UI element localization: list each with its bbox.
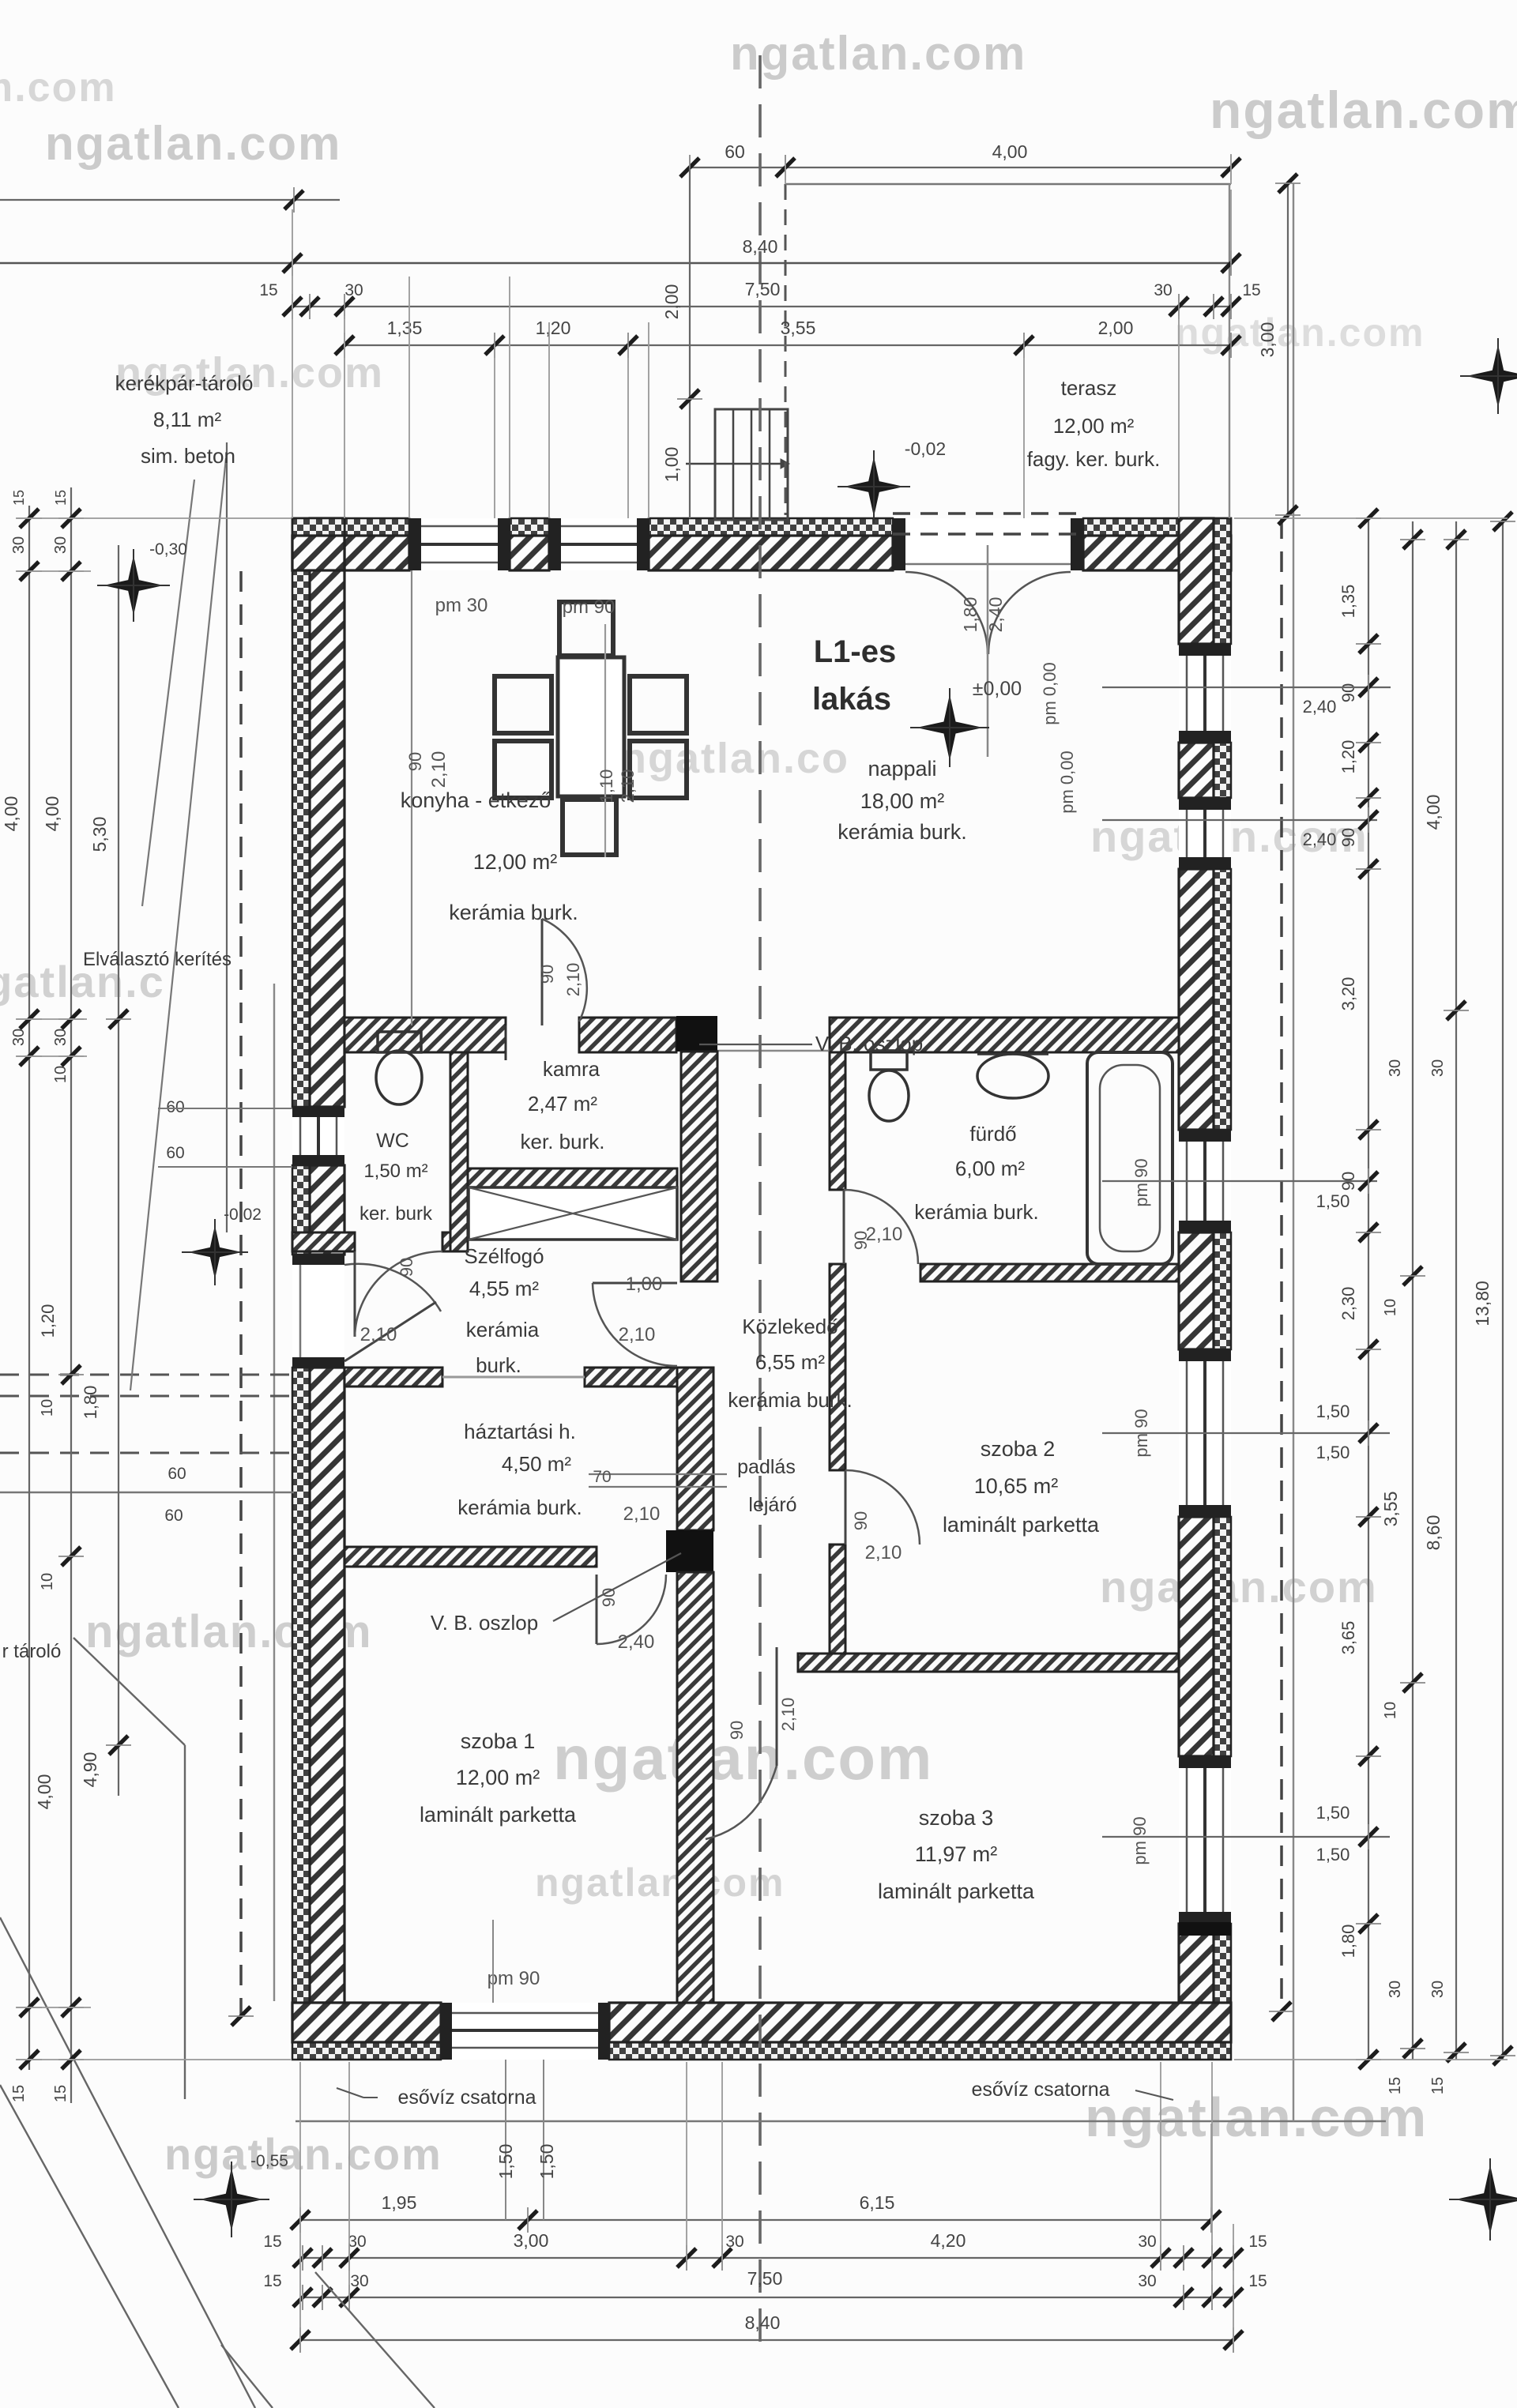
- svg-text:lakás: lakás: [812, 682, 891, 717]
- svg-text:30: 30: [52, 1029, 70, 1046]
- svg-text:2,10: 2,10: [428, 751, 450, 788]
- svg-text:kerámia burk.: kerámia burk.: [728, 1388, 853, 1412]
- svg-text:2,10: 2,10: [619, 1324, 656, 1345]
- svg-text:10: 10: [1382, 1702, 1399, 1719]
- svg-text:1,00: 1,00: [661, 447, 682, 483]
- svg-text:V. B. oszlop: V. B. oszlop: [431, 1611, 538, 1635]
- svg-text:12,00 m²: 12,00 m²: [456, 1766, 540, 1789]
- svg-text:±0,00: ±0,00: [973, 678, 1022, 700]
- svg-text:2,00: 2,00: [661, 284, 682, 320]
- svg-text:ngatlan.com: ngatlan.com: [164, 2129, 442, 2179]
- svg-text:15: 15: [10, 2085, 28, 2102]
- svg-text:esővíz csatorna: esővíz csatorna: [397, 2086, 536, 2109]
- svg-text:15: 15: [1387, 2077, 1404, 2094]
- svg-text:2,10: 2,10: [623, 1503, 661, 1525]
- svg-text:1,50 m²: 1,50 m²: [363, 1161, 427, 1182]
- svg-text:30: 30: [725, 2233, 743, 2251]
- svg-text:kerámia burk.: kerámia burk.: [838, 820, 967, 844]
- svg-text:90: 90: [599, 1588, 619, 1607]
- svg-text:pm 30: pm 30: [435, 595, 488, 616]
- svg-text:15: 15: [1248, 2233, 1267, 2251]
- svg-text:30: 30: [1154, 281, 1172, 299]
- svg-text:szoba 1: szoba 1: [461, 1729, 536, 1753]
- svg-text:15: 15: [1429, 2077, 1447, 2094]
- svg-text:4,00: 4,00: [992, 141, 1028, 162]
- svg-text:4,00: 4,00: [1, 796, 21, 832]
- svg-text:pm 0,00: pm 0,00: [1040, 662, 1060, 725]
- svg-text:1,50: 1,50: [1316, 1402, 1350, 1421]
- svg-text:10: 10: [1382, 1299, 1399, 1316]
- svg-text:konyha - étkező: konyha - étkező: [401, 788, 551, 812]
- svg-text:kerámia burk.: kerámia burk.: [449, 901, 578, 924]
- svg-text:Szélfogó: Szélfogó: [464, 1244, 544, 1268]
- svg-text:4,00: 4,00: [42, 796, 62, 832]
- svg-text:háztartási h.: háztartási h.: [464, 1420, 576, 1443]
- svg-text:padlás: padlás: [737, 1456, 796, 1478]
- svg-text:1,35: 1,35: [1338, 585, 1358, 619]
- svg-text:Elválasztó kerítés: Elválasztó kerítés: [83, 949, 232, 970]
- svg-text:30: 30: [350, 2272, 368, 2290]
- svg-text:3,55: 3,55: [1380, 1492, 1401, 1527]
- svg-text:90: 90: [537, 965, 557, 984]
- svg-text:4,55 m²: 4,55 m²: [469, 1277, 539, 1300]
- svg-text:10: 10: [39, 1399, 56, 1417]
- svg-text:5,30: 5,30: [89, 817, 110, 852]
- svg-text:11,97 m²: 11,97 m²: [915, 1842, 998, 1866]
- svg-text:30: 30: [10, 536, 28, 554]
- svg-text:30: 30: [10, 1029, 28, 1046]
- svg-text:4,90: 4,90: [80, 1752, 100, 1788]
- svg-text:10,65 m²: 10,65 m²: [974, 1474, 1059, 1498]
- svg-text:1,20: 1,20: [1338, 740, 1358, 774]
- svg-text:1,80: 1,80: [960, 597, 981, 633]
- svg-text:pm 90: pm 90: [1130, 1816, 1150, 1864]
- svg-text:2,10: 2,10: [360, 1324, 397, 1345]
- svg-text:15: 15: [52, 2085, 70, 2102]
- svg-text:L1-es: L1-es: [814, 634, 897, 669]
- svg-text:13,80: 13,80: [1472, 1281, 1493, 1326]
- svg-text:12,00 m²: 12,00 m²: [473, 850, 558, 874]
- svg-text:60: 60: [725, 141, 745, 162]
- svg-text:ngatlan.com: ngatlan.com: [1085, 2086, 1428, 2148]
- svg-text:-0,02: -0,02: [224, 1206, 262, 1224]
- svg-text:30: 30: [1387, 1981, 1404, 1998]
- svg-text:kerámia burk.: kerámia burk.: [457, 1496, 582, 1519]
- svg-text:1,50: 1,50: [495, 2144, 516, 2180]
- svg-text:30: 30: [52, 536, 70, 554]
- svg-text:2,47 m²: 2,47 m²: [528, 1092, 597, 1116]
- svg-text:15: 15: [263, 2272, 281, 2290]
- svg-text:2,00: 2,00: [1098, 318, 1134, 338]
- svg-text:4,00: 4,00: [34, 1774, 55, 1810]
- svg-text:90: 90: [397, 1258, 416, 1277]
- svg-text:60: 60: [168, 1465, 186, 1483]
- svg-text:1,00: 1,00: [626, 1274, 663, 1295]
- svg-text:ngatlan.com: ngatlan.com: [45, 117, 341, 170]
- svg-text:pm 90: pm 90: [563, 596, 615, 618]
- svg-text:1,35: 1,35: [387, 318, 423, 338]
- svg-text:10: 10: [52, 1066, 70, 1083]
- svg-text:fagy. ker. burk.: fagy. ker. burk.: [1027, 447, 1161, 471]
- svg-text:6,15: 6,15: [860, 2192, 895, 2213]
- svg-text:szoba 3: szoba 3: [919, 1806, 994, 1830]
- svg-text:60: 60: [166, 1144, 184, 1162]
- svg-text:15: 15: [1248, 2272, 1267, 2290]
- svg-text:ngatlan.com: ngatlan.com: [730, 27, 1026, 80]
- svg-text:6,55 m²: 6,55 m²: [755, 1350, 825, 1374]
- svg-text:8,40: 8,40: [743, 236, 778, 257]
- svg-text:4,50 m²: 4,50 m²: [502, 1452, 571, 1476]
- svg-text:2,40: 2,40: [1303, 697, 1337, 717]
- svg-text:3,55: 3,55: [781, 318, 816, 338]
- svg-text:V. B. oszlop: V. B. oszlop: [815, 1032, 923, 1055]
- svg-text:1,50: 1,50: [1316, 1443, 1350, 1462]
- svg-text:60: 60: [166, 1098, 184, 1116]
- svg-text:1,80: 1,80: [81, 1386, 100, 1420]
- svg-text:2,40: 2,40: [985, 597, 1006, 633]
- svg-text:3,00: 3,00: [1257, 322, 1278, 358]
- svg-text:2,40: 2,40: [618, 1631, 655, 1653]
- svg-text:2,30: 2,30: [1338, 1287, 1358, 1321]
- svg-text:pm 90: pm 90: [1131, 1158, 1151, 1206]
- svg-text:1,50: 1,50: [536, 2144, 557, 2180]
- svg-text:r tároló: r tároló: [2, 1641, 62, 1662]
- svg-text:3,00: 3,00: [514, 2230, 549, 2251]
- svg-text:7,50: 7,50: [745, 279, 781, 299]
- svg-text:30: 30: [1429, 1059, 1447, 1077]
- svg-text:30: 30: [1138, 2233, 1156, 2251]
- svg-text:burk.: burk.: [476, 1353, 521, 1377]
- svg-text:15: 15: [263, 2233, 281, 2251]
- svg-text:terasz: terasz: [1061, 376, 1117, 400]
- svg-text:15: 15: [11, 490, 27, 506]
- svg-text:8,60: 8,60: [1423, 1515, 1444, 1551]
- svg-text:1,50: 1,50: [1316, 1803, 1350, 1823]
- svg-text:2,10: 2,10: [866, 1224, 903, 1245]
- svg-text:ngatlan.com: ngatlan.com: [1175, 310, 1425, 355]
- svg-text:ngatlan.com: ngatlan.com: [535, 1861, 785, 1905]
- svg-text:2,10: 2,10: [618, 769, 638, 803]
- svg-text:szoba 2: szoba 2: [981, 1437, 1056, 1461]
- svg-text:WC: WC: [376, 1130, 409, 1152]
- svg-text:lejáró: lejáró: [748, 1494, 796, 1516]
- svg-text:4,20: 4,20: [931, 2230, 966, 2251]
- svg-text:pm 90: pm 90: [1131, 1409, 1151, 1457]
- svg-text:ngatlan.com: ngatlan.com: [1210, 81, 1517, 139]
- svg-text:15: 15: [259, 281, 277, 299]
- svg-text:90: 90: [727, 1721, 747, 1740]
- svg-text:kamra: kamra: [543, 1057, 600, 1081]
- svg-text:90: 90: [405, 752, 425, 771]
- svg-text:90: 90: [1338, 828, 1358, 847]
- svg-text:fürdő: fürdő: [969, 1122, 1016, 1146]
- svg-text:kerámia: kerámia: [466, 1318, 540, 1341]
- svg-text:laminált parketta: laminált parketta: [420, 1803, 577, 1827]
- svg-text:1,20: 1,20: [536, 318, 571, 338]
- svg-text:3,20: 3,20: [1338, 977, 1358, 1011]
- svg-text:1,20: 1,20: [38, 1304, 58, 1338]
- svg-text:1,80: 1,80: [1338, 1925, 1358, 1958]
- svg-text:2,10: 2,10: [778, 1698, 798, 1732]
- svg-text:pm 0,00: pm 0,00: [1057, 751, 1077, 814]
- svg-text:pm 90: pm 90: [487, 1968, 540, 1989]
- svg-text:1,50: 1,50: [1316, 1191, 1350, 1211]
- svg-text:kerámia burk.: kerámia burk.: [914, 1200, 1039, 1224]
- svg-text:sim. beton: sim. beton: [141, 444, 235, 468]
- svg-text:30: 30: [1429, 1981, 1447, 1998]
- svg-text:7,50: 7,50: [747, 2268, 783, 2289]
- svg-text:2,10: 2,10: [563, 963, 583, 997]
- svg-text:30: 30: [1387, 1059, 1404, 1077]
- svg-text:30: 30: [348, 2233, 366, 2251]
- svg-text:laminált parketta: laminált parketta: [943, 1513, 1100, 1537]
- svg-text:15: 15: [53, 490, 69, 506]
- svg-text:-0,02: -0,02: [905, 438, 946, 459]
- svg-text:60: 60: [164, 1507, 183, 1525]
- svg-text:6,00 m²: 6,00 m²: [955, 1157, 1025, 1180]
- svg-text:-0,55: -0,55: [250, 2152, 288, 2170]
- svg-text:esővíz csatorna: esővíz csatorna: [971, 2079, 1109, 2101]
- svg-text:90: 90: [1338, 683, 1358, 702]
- svg-text:10: 10: [39, 1573, 56, 1590]
- svg-text:1,50: 1,50: [1316, 1845, 1350, 1864]
- svg-text:ngatlan.com: ngatlan.com: [1100, 1562, 1378, 1612]
- svg-text:70: 70: [593, 1468, 611, 1486]
- svg-text:nappali: nappali: [868, 757, 936, 781]
- svg-text:1,95: 1,95: [382, 2192, 417, 2213]
- svg-text:2,40: 2,40: [1303, 830, 1337, 849]
- svg-text:15: 15: [1242, 281, 1260, 299]
- svg-text:Közlekedő: Közlekedő: [742, 1315, 838, 1338]
- svg-text:30: 30: [344, 281, 363, 299]
- svg-text:3,65: 3,65: [1338, 1621, 1358, 1655]
- svg-text:2,10: 2,10: [865, 1542, 902, 1563]
- svg-text:kerékpár-tároló: kerékpár-tároló: [115, 371, 254, 395]
- svg-text:4,00: 4,00: [1423, 795, 1444, 830]
- svg-text:8,40: 8,40: [745, 2312, 781, 2333]
- svg-text:ker. burk: ker. burk: [359, 1203, 433, 1225]
- svg-text:90: 90: [851, 1511, 871, 1530]
- svg-text:30: 30: [1138, 2272, 1156, 2290]
- svg-text:-0,30: -0,30: [149, 540, 187, 559]
- svg-text:ker. burk.: ker. burk.: [521, 1130, 605, 1153]
- svg-text:laminált parketta: laminált parketta: [878, 1879, 1035, 1903]
- svg-text:m.com: m.com: [0, 65, 117, 111]
- svg-text:1,10: 1,10: [597, 769, 616, 803]
- svg-text:8,11 m²: 8,11 m²: [153, 408, 222, 431]
- svg-text:18,00 m²: 18,00 m²: [860, 789, 945, 813]
- svg-text:12,00 m²: 12,00 m²: [1053, 414, 1135, 438]
